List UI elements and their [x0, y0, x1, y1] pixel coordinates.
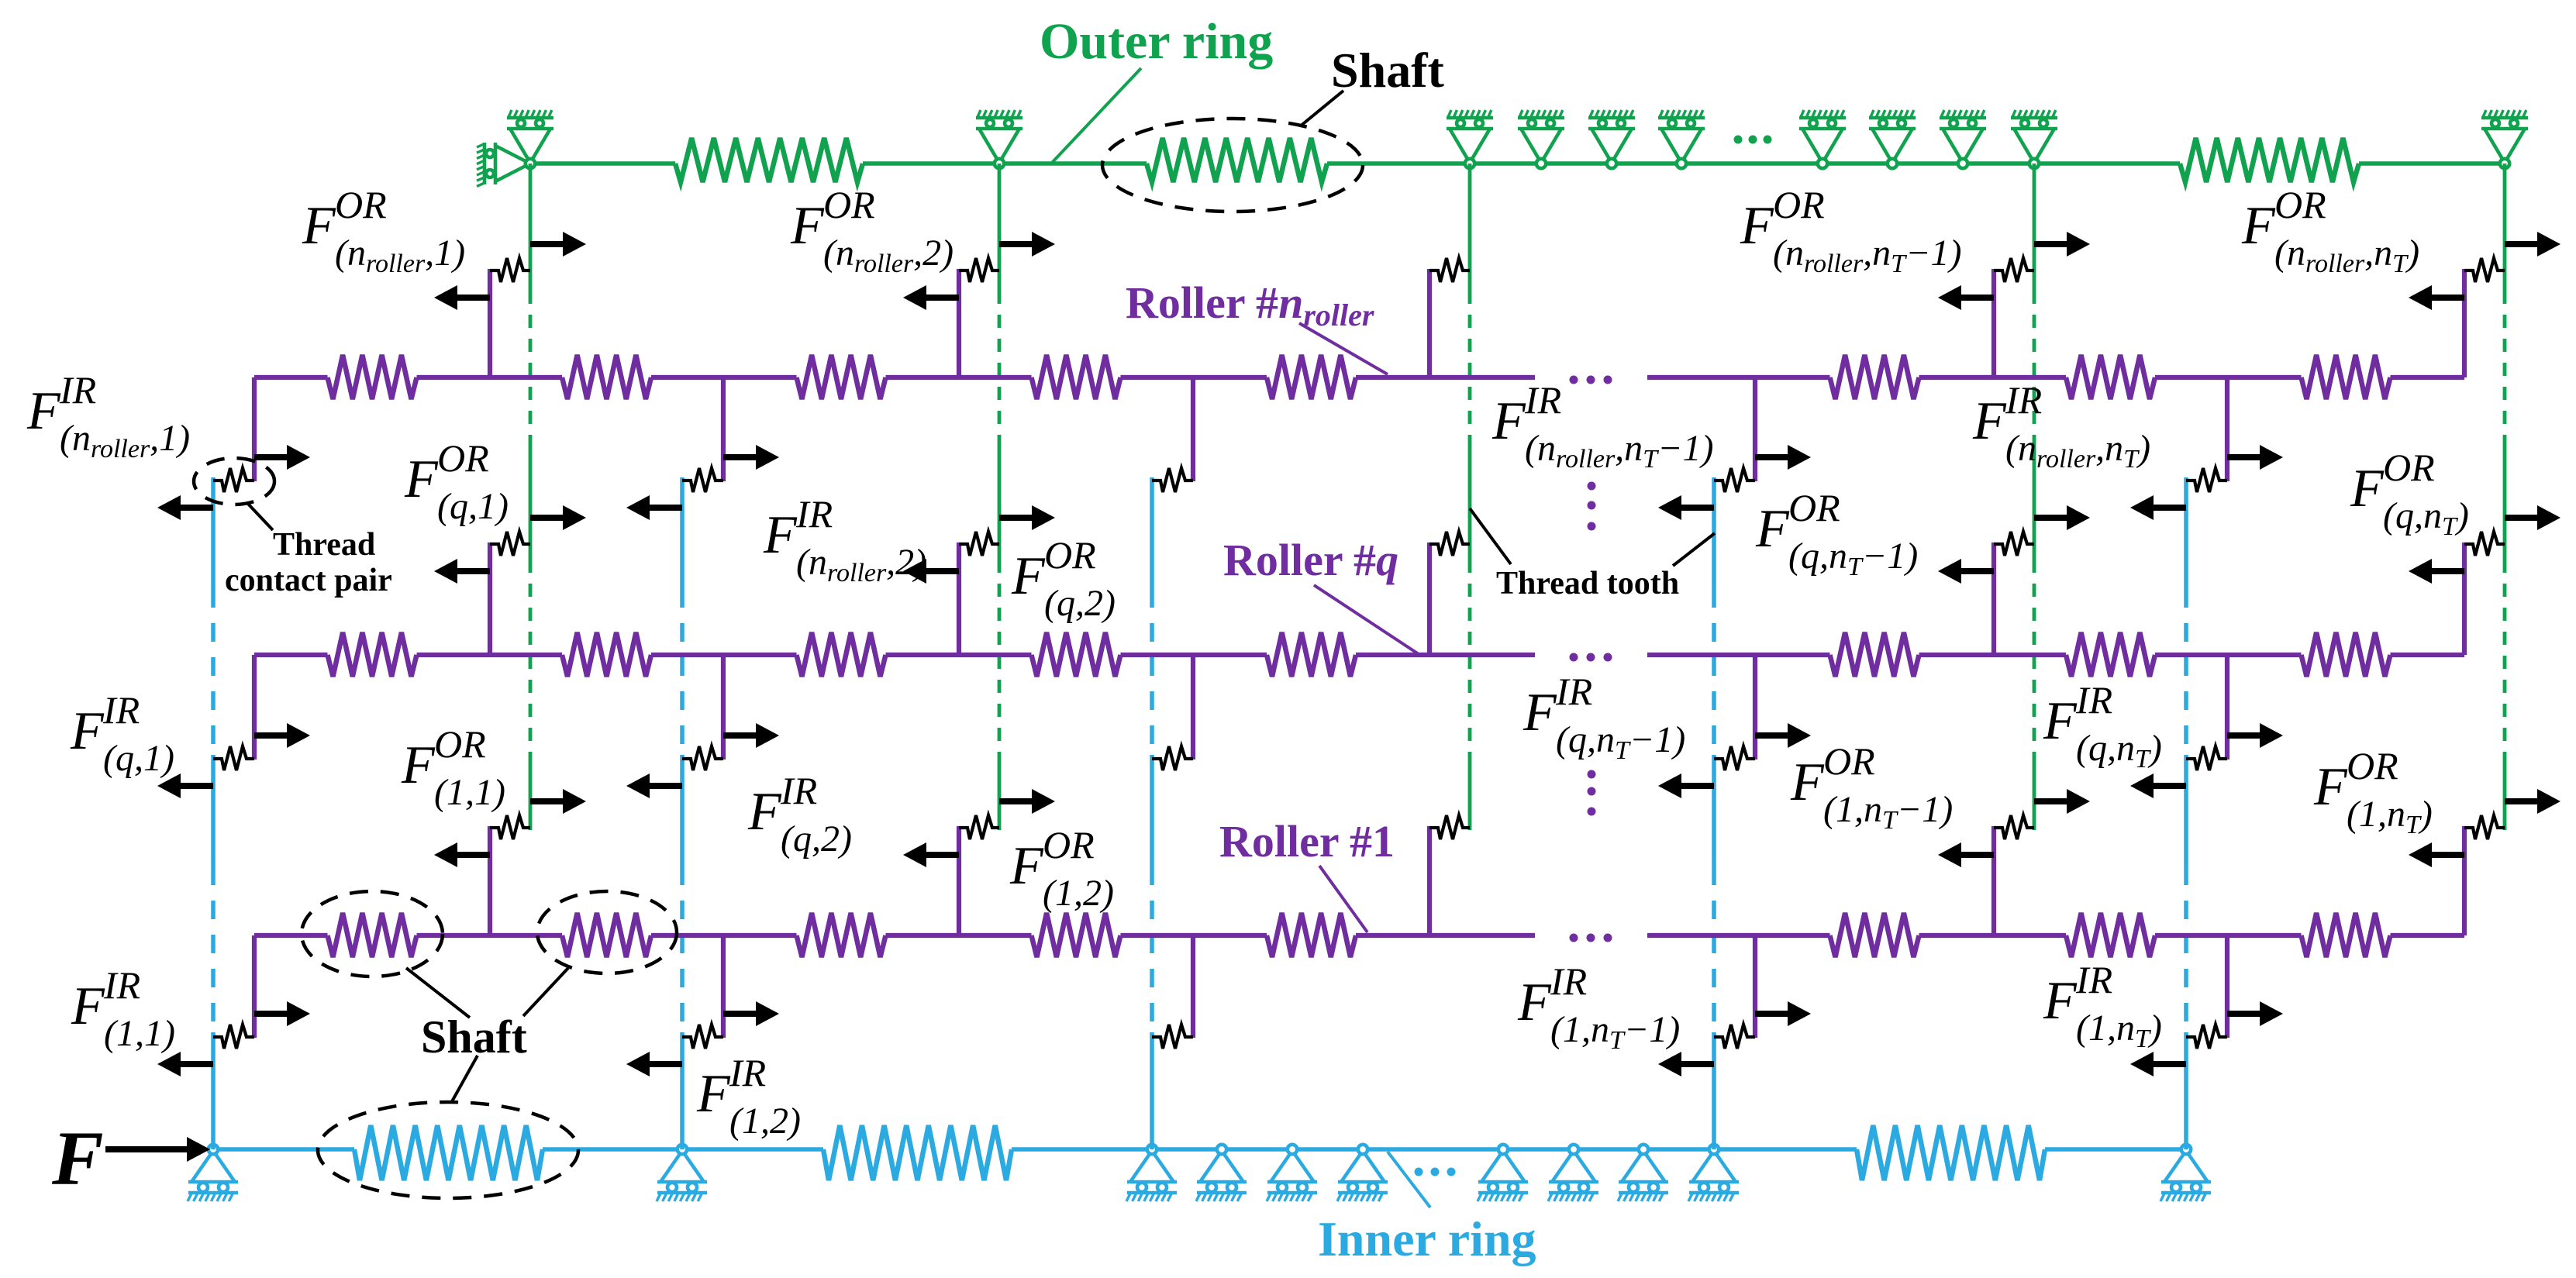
- svg-text:(q,nT): (q,nT): [2383, 495, 2469, 541]
- svg-text:OR: OR: [2274, 183, 2326, 226]
- svg-text:OR: OR: [2347, 744, 2398, 787]
- label F_OR(q,1): [404, 436, 509, 527]
- svg-text:F: F: [26, 381, 61, 441]
- outer ring spring 3: [2180, 138, 2359, 182]
- svg-text:F: F: [763, 505, 798, 565]
- svg-text:(nroller,nT−1): (nroller,nT−1): [1773, 233, 1961, 278]
- left arrow IR roller 1 tooth 2: [626, 1052, 682, 1076]
- thread spring IR roller q tooth 2: [682, 746, 723, 770]
- thread spring OR roller q tooth 2: [959, 532, 999, 556]
- roller #n spring at x=3026: [2302, 355, 2391, 399]
- outer ring intermediate support x=2532: [1940, 110, 1986, 168]
- roller #n spring at x=1085: [797, 355, 886, 399]
- svg-text:(nroller,nT−1): (nroller,nT−1): [1525, 428, 1713, 474]
- svg-text:OR: OR: [1044, 533, 1096, 577]
- left arrow IR roller 1 tooth 1: [157, 1052, 213, 1076]
- vertical dots between rows (upper): [1588, 482, 1596, 531]
- left arrow IR roller n tooth 4: [1658, 495, 1714, 520]
- thread spring OR roller n tooth 2: [959, 258, 999, 282]
- outer ring spring 2 (shaft ellipse): [1147, 138, 1327, 182]
- roller #n IR contact vertical tooth 4: [1753, 377, 1757, 481]
- svg-text:OR: OR: [1773, 183, 1825, 226]
- inner ring intermediate support x=1939: [1478, 1145, 1528, 1201]
- left arrow IR roller n tooth 1: [157, 495, 213, 520]
- roller #q OR contact vertical tooth 4: [1991, 543, 1996, 655]
- left arrow OR roller q tooth 1: [434, 559, 490, 584]
- svg-text:F: F: [1491, 391, 1526, 451]
- svg-text:F: F: [1009, 836, 1044, 896]
- svg-text:IR: IR: [780, 769, 817, 812]
- svg-text:OR: OR: [335, 183, 387, 226]
- left arrow OR roller 1 tooth 4: [1938, 842, 1994, 867]
- right arrow IR roller q tooth 2: [723, 723, 779, 748]
- svg-text:F: F: [1972, 391, 2007, 451]
- thread spring OR roller n tooth 4: [1994, 258, 2034, 282]
- roller #1 OR contact vertical tooth 3: [1427, 826, 1432, 935]
- left arrow OR roller 1 tooth 1: [434, 842, 490, 867]
- svg-text:OR: OR: [1788, 486, 1840, 529]
- leader Outer ring text to line: [1050, 68, 1141, 164]
- thread spring OR roller 1 tooth 1: [490, 815, 530, 839]
- label F_OR(q,nT): [2350, 446, 2469, 541]
- svg-text:(1,nT): (1,nT): [2347, 794, 2433, 839]
- svg-text:F: F: [1011, 546, 1046, 606]
- roller #n IR contact vertical tooth 5: [2225, 377, 2229, 481]
- left arrow IR roller 1 tooth 5: [2130, 1052, 2186, 1076]
- roller #1 OR contact vertical tooth 1: [488, 826, 492, 935]
- leader ellipse B to Shaft(bottom): [523, 968, 568, 1016]
- thread spring IR roller q tooth 3: [1152, 746, 1193, 770]
- svg-text:(q,2): (q,2): [781, 818, 852, 859]
- label F_IR(n_roller,nT): [1972, 378, 2150, 474]
- roller #1 spring at x=3026: [2302, 913, 2391, 957]
- roller #q spring at x=782: [562, 632, 651, 677]
- svg-text:F: F: [401, 735, 436, 795]
- inner ring (cyan) main line: [213, 1147, 354, 1152]
- svg-text:Thread tooth: Thread tooth: [1496, 566, 1679, 601]
- outer ring intermediate support x=2351: [1799, 110, 1846, 168]
- svg-text:(q,1): (q,1): [437, 486, 509, 527]
- roller #q spring at x=1388: [1032, 632, 1121, 677]
- left arrow OR roller q tooth 5: [2409, 559, 2464, 584]
- svg-text:Roller #q: Roller #q: [1223, 535, 1398, 585]
- thread spring OR roller q tooth 4: [1994, 532, 2034, 556]
- thread spring IR roller 1 tooth 3: [1152, 1025, 1193, 1049]
- label F_OR(q,nT-1): [1755, 486, 1918, 581]
- right arrow OR roller 1 tooth 1: [530, 789, 586, 814]
- thread spring IR roller 1 tooth 5: [2186, 1025, 2227, 1049]
- label F_IR(q,2): [747, 769, 852, 859]
- roller #q spring at x=1691: [1267, 632, 1356, 677]
- svg-text:F: F: [1790, 753, 1825, 812]
- label F_OR(1,2): [1009, 823, 1114, 914]
- inner ring support node 4: [1688, 1145, 1739, 1201]
- svg-text:F: F: [1517, 973, 1552, 1032]
- leader Shaft(top) to ellipse: [1300, 91, 1343, 126]
- left arrow IR roller n tooth 2: [626, 495, 682, 520]
- svg-text:OR: OR: [437, 436, 489, 480]
- svg-text:IR: IR: [59, 368, 96, 412]
- left arrow OR roller n tooth 2: [903, 285, 959, 310]
- shaft ellipse roller1 spring B: [537, 891, 677, 973]
- roller #n OR contact vertical tooth 3: [1427, 269, 1432, 377]
- svg-text:F: F: [790, 196, 825, 256]
- shaft ellipse roller1 spring A: [302, 891, 443, 977]
- leader Roller #q: [1314, 585, 1419, 654]
- label F_IR(1,nT-1): [1517, 959, 1680, 1055]
- inner ring support node 3: [1126, 1145, 1177, 1201]
- outer ring spring 1: [675, 138, 863, 182]
- left arrow OR roller q tooth 2: [903, 559, 959, 584]
- text Roller #n_roller: [1126, 277, 1374, 332]
- svg-text:F: F: [747, 782, 782, 842]
- roller #1 IR contact vertical tooth 5: [2225, 935, 2229, 1038]
- label F_IR(1,1): [71, 963, 175, 1054]
- thread spring OR roller q tooth 1: [490, 532, 530, 556]
- right arrow OR roller n tooth 5: [2505, 232, 2560, 257]
- roller #1 line dots: [1570, 934, 1612, 942]
- roller #n line dots: [1570, 376, 1612, 384]
- svg-text:IR: IR: [2075, 958, 2112, 1001]
- roller #n spring at x=480: [328, 355, 417, 399]
- leader Thread tooth to green vertical: [1470, 508, 1511, 564]
- svg-text:IR: IR: [102, 688, 140, 732]
- label F_OR(n_roller,nT-1): [1740, 183, 1961, 278]
- left arrow OR roller n tooth 4: [1938, 285, 1994, 310]
- cyan vertical (inner-ring tooth 1): [211, 477, 216, 589]
- right arrow OR roller q tooth 2: [999, 505, 1055, 530]
- text Roller #1: [1219, 816, 1395, 866]
- right arrow OR roller 1 tooth 4: [2034, 789, 2090, 814]
- roller #n OR contact vertical tooth 4: [1991, 269, 1996, 377]
- roller #1 IR contact vertical tooth 2: [721, 935, 726, 1038]
- thread spring IR roller n tooth 3: [1152, 468, 1193, 492]
- left arrow IR roller q tooth 5: [2130, 773, 2186, 798]
- roller #1 IR contact vertical tooth 1: [252, 935, 257, 1038]
- roller #1 spring at x=1691: [1267, 913, 1356, 957]
- leader Shaft(bottom) to inner ellipse: [451, 1056, 478, 1103]
- thread spring IR roller q tooth 5: [2186, 746, 2227, 770]
- thread spring OR roller n tooth 1: [490, 258, 530, 282]
- roller #q IR contact vertical tooth 5: [2225, 655, 2229, 760]
- left arrow OR roller q tooth 4: [1938, 559, 1994, 584]
- right arrow OR roller q tooth 1: [530, 505, 586, 530]
- roller #1 horizontal line: [254, 933, 328, 938]
- green vertical (outer-ring tooth 2): [998, 164, 1002, 291]
- label F_OR(1,nT): [2313, 744, 2433, 839]
- outer ring support node 2: [976, 110, 1022, 168]
- outer ring intermediate support x=2079: [1588, 110, 1635, 168]
- left arrow OR roller 1 tooth 5: [2409, 842, 2464, 867]
- thread spring OR roller n tooth 5: [2464, 258, 2505, 282]
- label F_IR(q,1): [70, 688, 174, 779]
- roller #1 spring at x=480: [328, 913, 417, 957]
- roller #q OR contact vertical tooth 1: [488, 543, 492, 655]
- label F_OR(q,2): [1011, 533, 1116, 624]
- outer ring intermediate support x=1988: [1518, 110, 1564, 168]
- roller #1 IR contact vertical tooth 4: [1753, 935, 1757, 1038]
- roller #n spring at x=1691: [1267, 355, 1356, 399]
- right arrow OR roller n tooth 1: [530, 232, 586, 257]
- right arrow OR roller q tooth 4: [2034, 505, 2090, 530]
- left arrow OR roller 1 tooth 2: [903, 842, 959, 867]
- roller #1 spring at x=782: [562, 913, 651, 957]
- roller #n horizontal line: [254, 375, 328, 380]
- shaft ellipse on inner ring: [318, 1102, 578, 1198]
- right arrow OR roller n tooth 2: [999, 232, 1055, 257]
- svg-text:F: F: [70, 701, 105, 761]
- svg-text:(1,2): (1,2): [729, 1101, 801, 1142]
- roller #q line dots: [1570, 653, 1612, 662]
- right arrow IR roller 1 tooth 4: [1755, 1001, 1811, 1026]
- svg-text:F: F: [71, 977, 105, 1036]
- roller #q spring at x=3026: [2302, 632, 2391, 677]
- thread spring IR roller 1 tooth 1: [213, 1025, 254, 1049]
- outer ring dots: [1734, 136, 1772, 144]
- thread spring OR roller q tooth 3: [1429, 532, 1470, 556]
- roller #1 spring at x=2418: [1830, 913, 1919, 957]
- inner ring support node 1: [188, 1145, 238, 1201]
- thread spring OR roller q tooth 5: [2464, 532, 2505, 556]
- label F_OR(1,nT-1): [1790, 739, 1953, 835]
- svg-text:(q,nT): (q,nT): [2076, 728, 2162, 773]
- svg-text:contact pair: contact pair: [225, 563, 392, 598]
- left arrow IR roller q tooth 1: [157, 773, 213, 798]
- leader Roller #1: [1319, 866, 1367, 932]
- label F_IR(n_roller,nT-1): [1491, 378, 1713, 474]
- svg-text:F: F: [2350, 459, 2385, 518]
- roller #q horizontal line: [254, 653, 328, 657]
- left arrow IR roller 1 tooth 4: [1658, 1052, 1714, 1076]
- label F_OR(n_roller,2): [790, 183, 953, 278]
- roller #q spring at x=480: [328, 632, 417, 677]
- F load arrow: [105, 1137, 210, 1162]
- inner ring intermediate support x=2030: [1548, 1145, 1598, 1201]
- right arrow IR roller n tooth 5: [2227, 445, 2283, 470]
- svg-text:IR: IR: [729, 1051, 766, 1094]
- inner ring dots: [1415, 1168, 1456, 1176]
- left arrow IR roller q tooth 2: [626, 773, 682, 798]
- roller #n OR contact vertical tooth 1: [488, 269, 492, 377]
- inner ring spring 3: [1857, 1125, 2045, 1180]
- thread spring IR roller q tooth 4: [1714, 746, 1755, 770]
- label F_IR(1,nT): [2043, 958, 2162, 1053]
- svg-text:(1,1): (1,1): [104, 1013, 175, 1054]
- thread contact pair ellipse: [194, 458, 274, 505]
- svg-text:Outer ring: Outer ring: [1040, 13, 1273, 70]
- svg-text:Thread: Thread: [273, 527, 375, 563]
- right arrow IR roller q tooth 4: [1755, 723, 1811, 748]
- right arrow OR roller 1 tooth 2: [999, 789, 1055, 814]
- svg-text:F: F: [1522, 683, 1557, 742]
- svg-text:F: F: [2241, 196, 2276, 256]
- svg-text:IR: IR: [1555, 670, 1592, 713]
- leader Thread tooth to cyan vertical: [1673, 533, 1715, 566]
- roller #q spring at x=1085: [797, 632, 886, 677]
- right arrow IR roller n tooth 4: [1755, 445, 1811, 470]
- shaft ellipse on outer ring: [1102, 119, 1363, 212]
- svg-text:F: F: [2043, 691, 2078, 751]
- right arrow IR roller q tooth 1: [254, 723, 310, 748]
- inner ring intermediate support x=1667: [1267, 1145, 1317, 1201]
- leader ellipse A to Shaft(bottom): [406, 968, 470, 1018]
- cyan vertical (inner-ring tooth 3): [1150, 477, 1154, 589]
- svg-text:F: F: [696, 1064, 731, 1124]
- roller #1 OR contact vertical tooth 4: [1991, 826, 1996, 935]
- label F_IR(n_roller,2): [763, 492, 926, 587]
- outer ring (green) main line: [530, 161, 675, 166]
- thread spring IR roller n tooth 1: [213, 468, 254, 492]
- outer ring support node 1: [507, 110, 553, 168]
- roller #q OR contact vertical tooth 5: [2462, 543, 2467, 655]
- right arrow IR roller q tooth 5: [2227, 723, 2283, 748]
- inner ring intermediate support x=1758: [1337, 1145, 1388, 1201]
- left arrow IR roller n tooth 5: [2130, 495, 2186, 520]
- inner ring spring 1 (shaft ellipse): [354, 1125, 543, 1180]
- label F_IR(1,2): [696, 1051, 801, 1142]
- label F_OR(n_roller,nT): [2241, 183, 2419, 278]
- thread spring IR roller n tooth 5: [2186, 468, 2227, 492]
- roller #q spring at x=2722: [2066, 632, 2155, 677]
- svg-text:F: F: [302, 196, 336, 256]
- left arrow IR roller q tooth 4: [1658, 773, 1714, 798]
- roller #q IR contact vertical tooth 2: [721, 655, 726, 760]
- right arrow IR roller 1 tooth 5: [2227, 1001, 2283, 1026]
- svg-text:(q,2): (q,2): [1044, 583, 1116, 624]
- leader Inner ring text to line: [1388, 1152, 1430, 1207]
- thread spring IR roller 1 tooth 2: [682, 1025, 723, 1049]
- right arrow OR roller n tooth 4: [2034, 232, 2090, 257]
- thread spring OR roller n tooth 3: [1429, 258, 1470, 282]
- svg-text:IR: IR: [1524, 378, 1561, 422]
- right arrow IR roller n tooth 1: [254, 445, 310, 470]
- inner ring intermediate support x=2120: [1618, 1145, 1668, 1201]
- roller #n IR contact vertical tooth 1: [252, 377, 257, 481]
- green vertical (outer-ring tooth 5): [2503, 164, 2507, 291]
- roller #1 OR contact vertical tooth 2: [957, 826, 961, 935]
- svg-text:OR: OR: [1043, 823, 1095, 866]
- svg-text:OR: OR: [1823, 739, 1875, 783]
- thread spring OR roller 1 tooth 5: [2464, 815, 2505, 839]
- roller #1 spring at x=1085: [797, 913, 886, 957]
- right arrow IR roller n tooth 2: [723, 445, 779, 470]
- thread spring IR roller n tooth 2: [682, 468, 723, 492]
- roller #n OR contact vertical tooth 2: [957, 269, 961, 377]
- svg-text:Shaft: Shaft: [1331, 43, 1445, 98]
- label F_IR(q,nT-1): [1522, 670, 1685, 765]
- svg-text:IR: IR: [795, 492, 833, 536]
- svg-text:IR: IR: [2075, 678, 2112, 722]
- svg-text:F: F: [1740, 196, 1774, 256]
- roller #q OR contact vertical tooth 2: [957, 543, 961, 655]
- roller #1 IR contact vertical tooth 3: [1191, 935, 1195, 1038]
- right arrow OR roller q tooth 5: [2505, 505, 2560, 530]
- svg-text:(1,1): (1,1): [434, 772, 505, 813]
- thread spring OR roller 1 tooth 3: [1429, 815, 1470, 839]
- thread spring OR roller 1 tooth 4: [1994, 815, 2034, 839]
- roller #1 spring at x=1388: [1032, 913, 1121, 957]
- cyan vertical (inner-ring tooth 5): [2184, 477, 2188, 589]
- thread spring IR roller n tooth 4: [1714, 468, 1755, 492]
- cyan vertical (inner-ring tooth 2): [680, 477, 685, 589]
- svg-text:Shaft: Shaft: [421, 1011, 527, 1063]
- roller #1 spring at x=2722: [2066, 913, 2155, 957]
- roller #n IR contact vertical tooth 3: [1191, 377, 1195, 481]
- roller #q IR contact vertical tooth 3: [1191, 655, 1195, 760]
- roller #n spring at x=2722: [2066, 355, 2155, 399]
- text Roller #q: [1223, 535, 1398, 585]
- outer ring support node 5: [2481, 110, 2528, 168]
- svg-text:IR: IR: [1550, 959, 1587, 1003]
- left arrow OR roller n tooth 5: [2409, 285, 2464, 310]
- svg-text:Inner ring: Inner ring: [1318, 1211, 1536, 1266]
- roller #n spring at x=2418: [1830, 355, 1919, 399]
- inner ring spring 2: [823, 1125, 1012, 1180]
- roller #q spring at x=2418: [1830, 632, 1919, 677]
- svg-text:F: F: [2313, 757, 2348, 817]
- outer ring support node 4: [2011, 110, 2057, 168]
- svg-text:F: F: [404, 450, 439, 509]
- roller #n OR contact vertical tooth 5: [2462, 269, 2467, 377]
- thread spring OR roller 1 tooth 2: [959, 815, 999, 839]
- roller #1 OR contact vertical tooth 5: [2462, 826, 2467, 935]
- svg-text:OR: OR: [434, 722, 486, 766]
- inner ring support node 5: [2160, 1145, 2211, 1201]
- outer ring left wall support: [477, 143, 526, 186]
- roller #n IR contact vertical tooth 2: [721, 377, 726, 481]
- svg-text:OR: OR: [823, 183, 875, 226]
- svg-text:(q,1): (q,1): [103, 738, 174, 779]
- green vertical (outer-ring tooth 1): [529, 164, 533, 291]
- svg-text:OR: OR: [2383, 446, 2435, 489]
- leader thread-contact-pair ellipse to text: [247, 502, 273, 530]
- right arrow OR roller 1 tooth 5: [2505, 789, 2560, 814]
- inner ring intermediate support x=1576: [1196, 1145, 1247, 1201]
- thread spring IR roller 1 tooth 4: [1714, 1025, 1755, 1049]
- label F_IR(q,nT): [2043, 678, 2162, 773]
- outer ring intermediate support x=2169: [1658, 110, 1705, 168]
- green vertical (outer-ring tooth 4): [2033, 164, 2036, 291]
- label F_IR(n_roller,1): [26, 368, 190, 463]
- label F_OR(1,1): [401, 722, 505, 813]
- svg-text:(1,2): (1,2): [1043, 873, 1114, 914]
- roller #q IR contact vertical tooth 1: [252, 655, 257, 760]
- inner ring support node 2: [657, 1145, 707, 1201]
- svg-text:F: F: [51, 1115, 104, 1201]
- leader Roller #n_roller: [1299, 323, 1388, 374]
- roller #q OR contact vertical tooth 3: [1427, 543, 1432, 655]
- vertical dots between rows (lower): [1588, 770, 1596, 816]
- svg-text:IR: IR: [2005, 378, 2042, 422]
- green vertical (outer-ring tooth 3): [1468, 164, 1472, 291]
- roller #q IR contact vertical tooth 4: [1753, 655, 1757, 760]
- cyan vertical (inner-ring tooth 4): [1712, 477, 1716, 589]
- label F_OR(n_roller,1): [302, 183, 465, 278]
- roller #n spring at x=782: [562, 355, 651, 399]
- left arrow OR roller n tooth 1: [434, 285, 490, 310]
- outer ring support node 3: [1447, 110, 1493, 168]
- svg-text:F: F: [1755, 499, 1790, 559]
- svg-text:Roller #1: Roller #1: [1219, 816, 1395, 866]
- right arrow IR roller 1 tooth 1: [254, 1001, 310, 1026]
- thread spring IR roller q tooth 1: [213, 746, 254, 770]
- outer ring intermediate support x=2441: [1869, 110, 1916, 168]
- svg-text:IR: IR: [103, 963, 140, 1007]
- svg-text:(1,nT): (1,nT): [2076, 1008, 2162, 1053]
- roller #n spring at x=1388: [1032, 355, 1121, 399]
- right arrow IR roller 1 tooth 2: [723, 1001, 779, 1026]
- svg-text:F: F: [2043, 971, 2078, 1031]
